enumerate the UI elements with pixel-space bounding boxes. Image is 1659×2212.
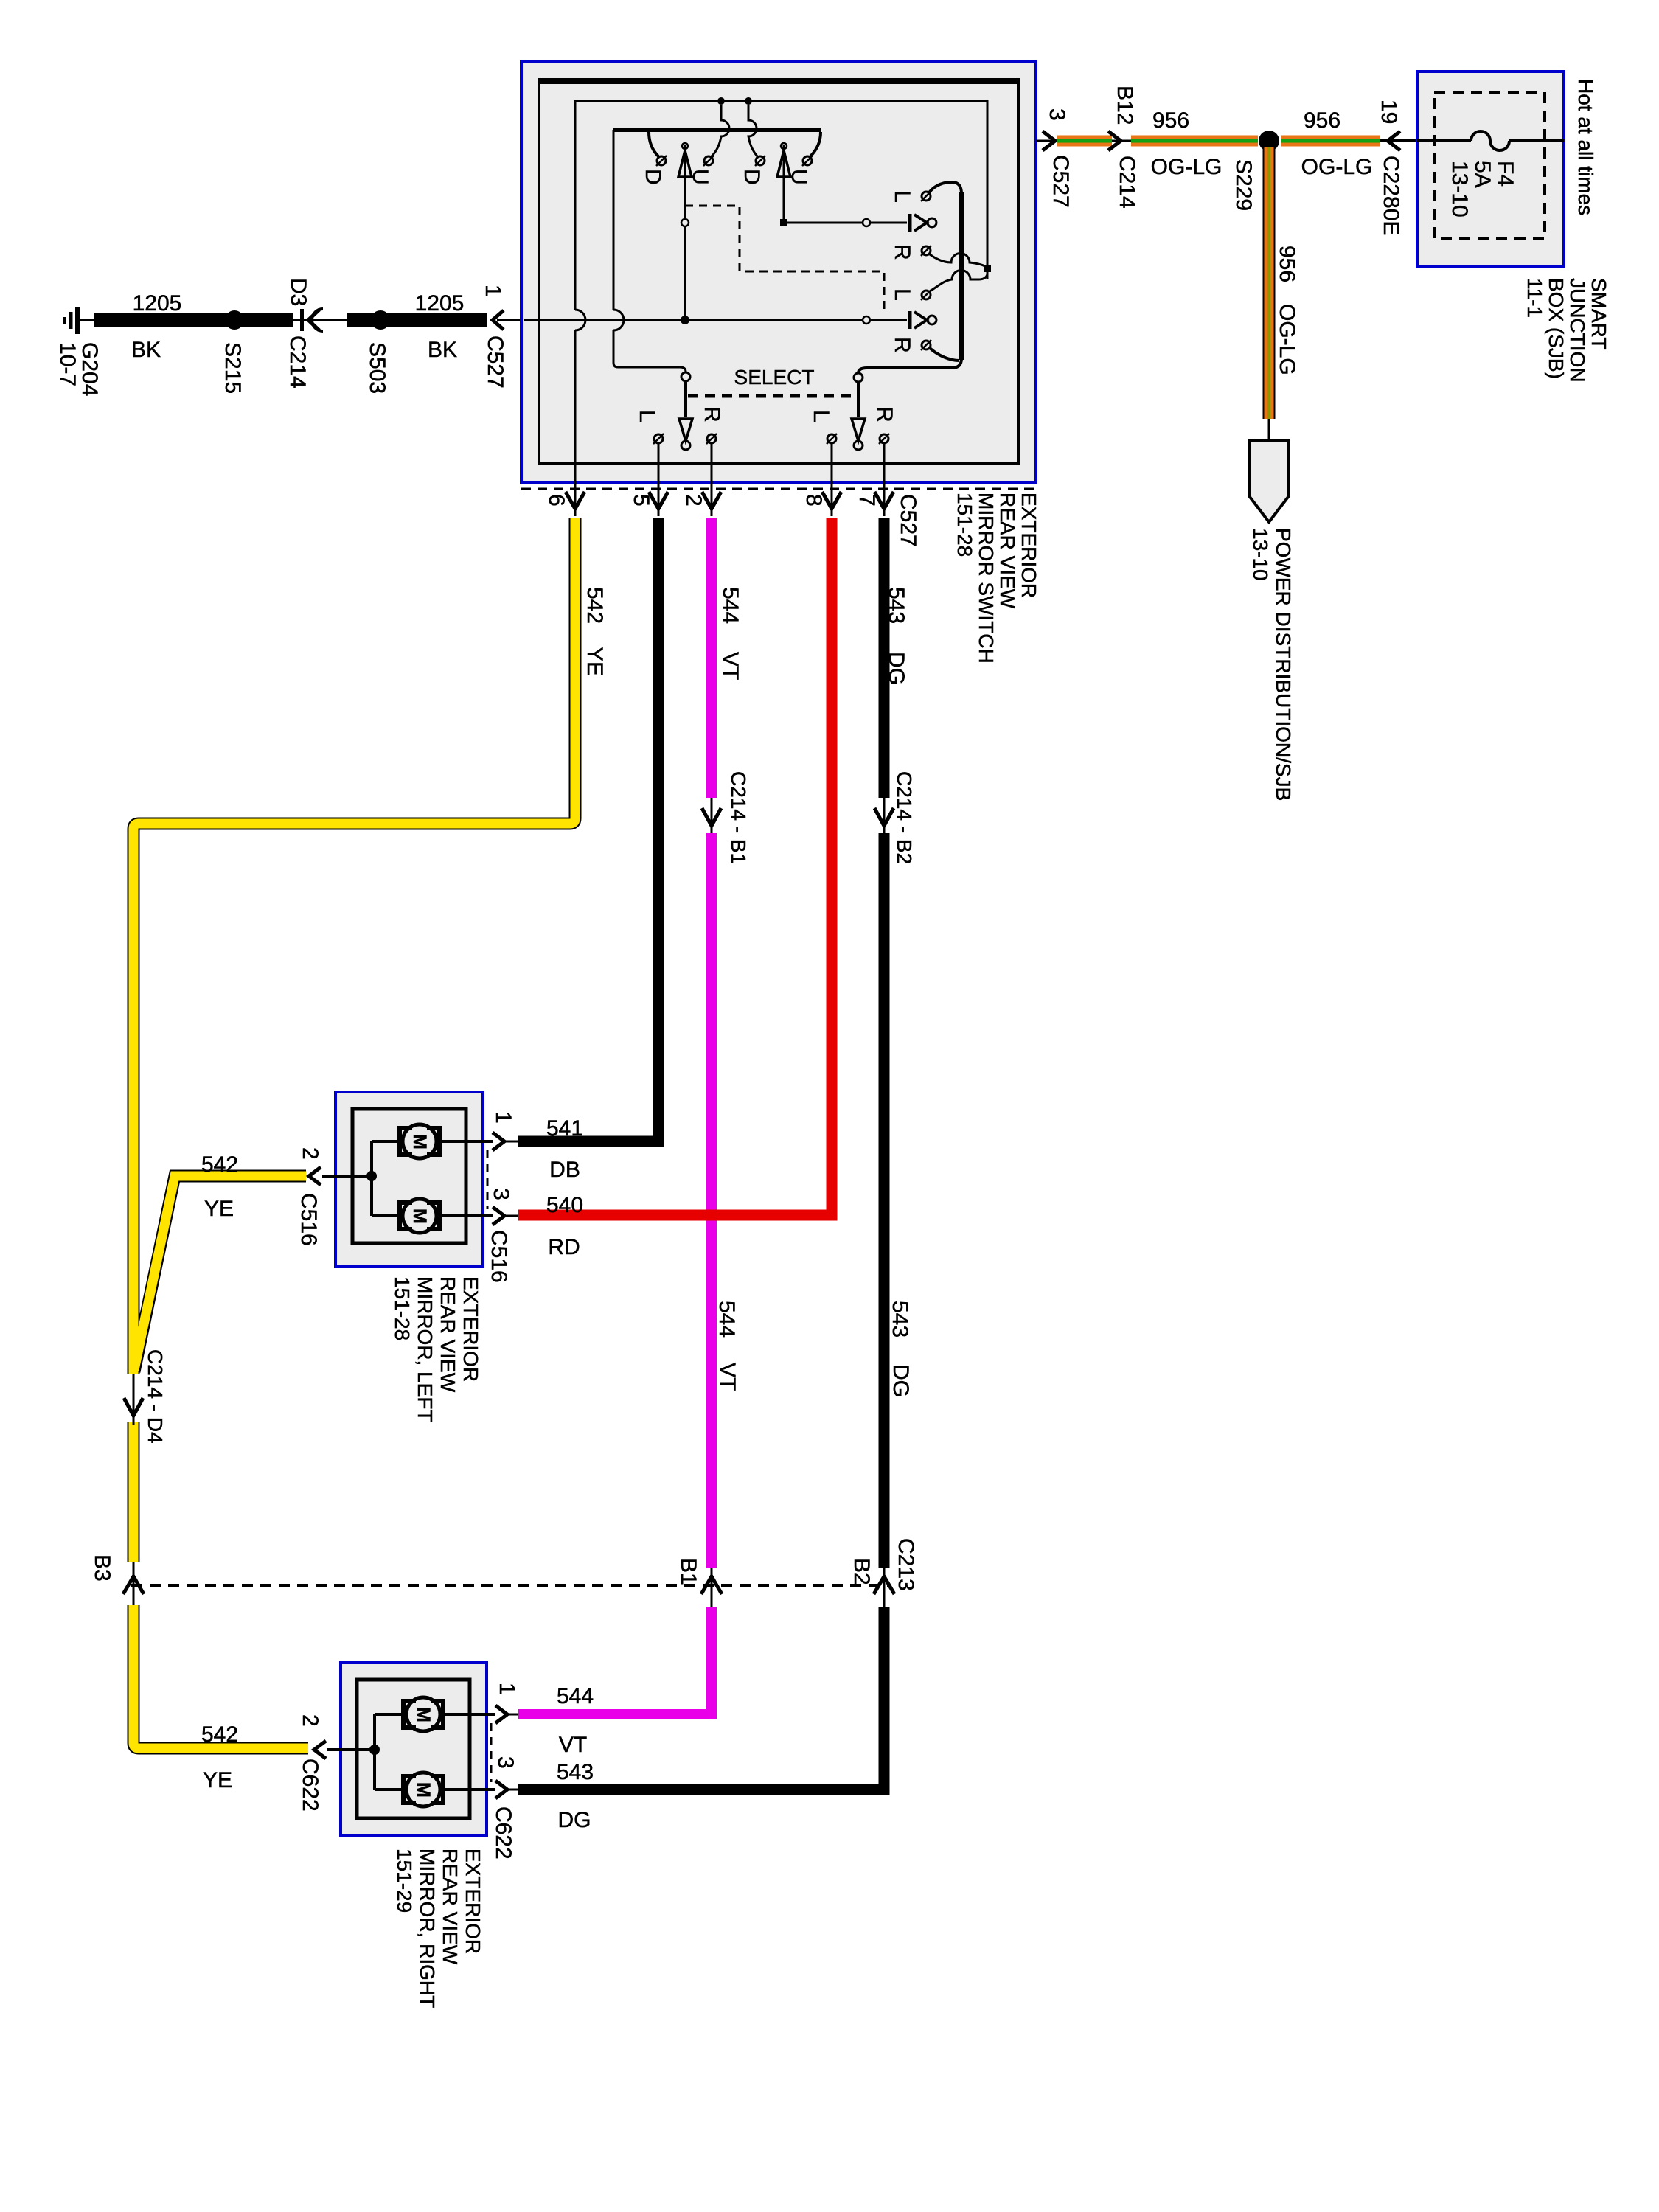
- wire up-down wiper bus B: [613, 130, 821, 156]
- dashed select link: [688, 394, 856, 398]
- svg-text:543: 543: [884, 587, 908, 624]
- svg-text:7: 7: [855, 494, 879, 507]
- select switch right pole: [852, 373, 865, 450]
- svg-text:151-29: 151-29: [393, 1848, 416, 1913]
- svg-text:544: 544: [718, 587, 742, 624]
- motor M1 left mirror: [400, 1124, 439, 1158]
- svg-text:M: M: [413, 1707, 434, 1722]
- svg-text:EXTERIOR: EXTERIOR: [462, 1848, 484, 1954]
- svg-text:YE: YE: [203, 1768, 232, 1792]
- svg-text:REAR VIEW: REAR VIEW: [996, 493, 1019, 609]
- wire 956 OG-LG segment A: [1057, 136, 1112, 147]
- right mirror box EXTERIOR REAR VIEW MIRROR RIGHT: [341, 1663, 487, 1835]
- contact R1: [890, 244, 931, 260]
- svg-text:S503: S503: [365, 342, 389, 394]
- svg-text:MIRROR, LEFT: MIRROR, LEFT: [414, 1276, 437, 1422]
- wiper arrow 1 (up-down): [678, 143, 692, 324]
- svg-text:C214: C214: [1115, 156, 1139, 209]
- svg-text:OG-LG: OG-LG: [1301, 155, 1373, 179]
- svg-text:VT: VT: [718, 652, 742, 680]
- svg-text:D: D: [641, 169, 665, 185]
- svg-text:SMART: SMART: [1587, 278, 1610, 350]
- contact R2: [890, 337, 931, 353]
- splice S215: [220, 310, 245, 394]
- wire 541 DB: [518, 518, 742, 1141]
- svg-text:2: 2: [298, 1714, 322, 1727]
- svg-text:10-7: 10-7: [55, 342, 80, 386]
- svg-text:956: 956: [1275, 246, 1299, 282]
- svg-text:MIRROR SWITCH: MIRROR SWITCH: [975, 493, 998, 664]
- wire 540 RD: [518, 518, 832, 1215]
- wire common line A (pin 6 feed): [575, 97, 991, 487]
- fuse F4 5A: [1417, 131, 1564, 218]
- svg-text:544: 544: [557, 1684, 594, 1708]
- select contact L (pin8): [809, 410, 837, 444]
- contact U2: [787, 156, 813, 185]
- contact L2: [890, 288, 931, 301]
- svg-text:2: 2: [298, 1147, 322, 1160]
- wire 542 YE: [133, 518, 607, 1748]
- svg-text:C516: C516: [487, 1230, 511, 1283]
- left mirror internal wiring: [322, 1141, 493, 1216]
- svg-text:C213: C213: [894, 1538, 918, 1591]
- svg-text:1: 1: [481, 285, 505, 297]
- pin 3 arrow wire 540: [487, 1188, 583, 1283]
- svg-text:R: R: [700, 406, 724, 422]
- svg-text:6: 6: [544, 494, 568, 507]
- wire L2 arm to common: [930, 271, 987, 292]
- power distribution arrow: [1249, 419, 1295, 801]
- svg-text:C214 - B2: C214 - B2: [893, 771, 916, 864]
- svg-text:C527: C527: [483, 335, 507, 389]
- wire select pole L feed: [613, 130, 686, 372]
- svg-text:R: R: [890, 244, 914, 260]
- svg-text:S215: S215: [220, 342, 245, 394]
- svg-text:956: 956: [1304, 108, 1340, 133]
- wire 956 OG-LG segment C: [1281, 108, 1380, 179]
- splice S503: [365, 310, 390, 394]
- wiper arrow 2 (up-down): [777, 143, 790, 226]
- svg-text:151-28: 151-28: [391, 1276, 414, 1340]
- wire 1205 BK segment 1: [94, 291, 293, 362]
- svg-text:REAR VIEW: REAR VIEW: [439, 1848, 462, 1965]
- pin 1 arrow wire 541: [491, 1111, 583, 1182]
- svg-text:C516: C516: [296, 1193, 321, 1246]
- connector C2280E pin 19: [1377, 100, 1417, 235]
- svg-text:RD: RD: [548, 1235, 580, 1259]
- svg-text:C214 - D4: C214 - D4: [144, 1349, 167, 1444]
- svg-text:C214: C214: [285, 335, 310, 389]
- svg-text:541: 541: [546, 1116, 583, 1141]
- left mirror box EXTERIOR REAR VIEW MIRROR LEFT: [335, 1092, 483, 1267]
- svg-text:C2280E: C2280E: [1379, 156, 1403, 235]
- contact U1: [688, 156, 714, 185]
- wire 543 DG: [518, 518, 913, 1790]
- pin 1 arrow wire 544: [495, 1683, 594, 1757]
- svg-text:L: L: [890, 190, 914, 203]
- motor M2 left mirror: [400, 1199, 439, 1233]
- svg-text:C527: C527: [896, 494, 920, 547]
- select switch left pole: [679, 372, 692, 450]
- pin 2 arrow C622: [201, 1714, 326, 1812]
- pin 8 arrow: [801, 465, 841, 516]
- svg-text:REAR VIEW: REAR VIEW: [437, 1276, 459, 1393]
- connector C213 dashed: [131, 1538, 918, 1591]
- svg-text:2: 2: [681, 494, 706, 507]
- connector C214 B1 arrow: [702, 771, 750, 864]
- pin 2 arrow: [681, 465, 721, 516]
- svg-text:R: R: [890, 337, 914, 353]
- svg-text:544: 544: [714, 1301, 739, 1338]
- svg-text:L: L: [890, 288, 914, 301]
- svg-text:D: D: [740, 169, 764, 185]
- svg-text:1: 1: [495, 1683, 519, 1695]
- connector C214 D3: [285, 278, 347, 389]
- svg-text:BK: BK: [428, 338, 457, 362]
- svg-text:YE: YE: [582, 647, 607, 676]
- svg-text:L: L: [809, 410, 833, 422]
- connector C527 pin 3: [1036, 108, 1073, 208]
- svg-text:542: 542: [582, 587, 607, 624]
- smart junction box SJB: [1417, 72, 1564, 267]
- wire contact U1 drop: [712, 105, 729, 156]
- svg-text:POWER DISTRIBUTION/SJB: POWER DISTRIBUTION/SJB: [1272, 528, 1295, 801]
- svg-text:B2: B2: [849, 1558, 874, 1585]
- svg-text:C622: C622: [298, 1759, 322, 1812]
- svg-text:543: 543: [557, 1760, 594, 1784]
- svg-text:C622: C622: [491, 1806, 515, 1860]
- svg-text:1205: 1205: [133, 291, 182, 316]
- svg-text:MIRROR, RIGHT: MIRROR, RIGHT: [416, 1848, 439, 2008]
- svg-text:C214 - B1: C214 - B1: [727, 771, 750, 864]
- svg-text:5: 5: [629, 494, 653, 507]
- svg-text:13-10: 13-10: [1249, 528, 1272, 581]
- ground G204: [55, 307, 102, 396]
- svg-text:BOX (SJB): BOX (SJB): [1545, 278, 1568, 379]
- select contact R (pin7): [872, 406, 897, 444]
- pin contact stubs: [658, 443, 884, 467]
- connector C213 B2 arrow: [849, 1558, 894, 1594]
- right mirror label: [393, 1848, 484, 2008]
- svg-text:M: M: [413, 1782, 434, 1798]
- connector C527 dashed under switch box: [521, 488, 1037, 490]
- svg-text:542: 542: [201, 1152, 238, 1177]
- connector C214 B2 arrow: [874, 771, 916, 864]
- wire 542 YE outline: [133, 518, 575, 1748]
- contact L1: [890, 190, 931, 203]
- svg-text:D3: D3: [286, 278, 310, 306]
- svg-text:DG: DG: [884, 652, 908, 685]
- svg-text:19: 19: [1377, 100, 1401, 124]
- svg-text:S229: S229: [1231, 159, 1256, 211]
- connector C214 D4 on 542: [124, 1349, 167, 1444]
- svg-text:EXTERIOR: EXTERIOR: [459, 1276, 482, 1382]
- svg-text:M: M: [409, 1134, 430, 1150]
- svg-text:C527: C527: [1048, 155, 1073, 208]
- pin 2 arrow C516: [201, 1147, 322, 1246]
- connector C213 B3 arrow: [90, 1554, 144, 1605]
- label smart junction box: [1523, 278, 1610, 383]
- svg-text:OG-LG: OG-LG: [1151, 155, 1222, 179]
- connector C527 pin 1: [481, 285, 524, 389]
- svg-text:1205: 1205: [415, 291, 465, 316]
- svg-text:3: 3: [1045, 108, 1069, 121]
- wire 956 OG-LG vertical: [1269, 147, 1299, 419]
- svg-text:L: L: [635, 410, 659, 422]
- svg-text:SELECT: SELECT: [734, 366, 815, 389]
- svg-text:DG: DG: [888, 1364, 913, 1397]
- svg-text:1: 1: [491, 1111, 515, 1124]
- svg-text:151-28: 151-28: [953, 493, 976, 557]
- svg-text:BK: BK: [131, 338, 161, 362]
- svg-text:3: 3: [489, 1188, 513, 1200]
- svg-text:VT: VT: [559, 1733, 587, 1757]
- svg-text:G204: G204: [77, 342, 102, 396]
- svg-text:F4: F4: [1493, 161, 1517, 187]
- wire left-right bus R: [858, 182, 961, 373]
- contact D1: [641, 156, 667, 185]
- svg-text:VT: VT: [715, 1363, 740, 1391]
- motor M1 right mirror: [403, 1697, 443, 1731]
- svg-text:EXTERIOR: EXTERIOR: [1018, 493, 1040, 598]
- pin 5 arrow: [629, 465, 668, 516]
- svg-text:DG: DG: [558, 1808, 591, 1832]
- connector C214 B12: [1108, 86, 1139, 209]
- connector C622 dashed: [490, 1723, 493, 1782]
- dashed mechanical link up-down: [685, 206, 884, 313]
- svg-text:M: M: [409, 1208, 430, 1224]
- wire 544 VT: [518, 518, 742, 1714]
- pin 3 arrow wire 543: [491, 1756, 594, 1860]
- wire pin1 common feed line: [524, 311, 936, 329]
- svg-text:540: 540: [546, 1193, 583, 1217]
- connector C516 dashed: [487, 1150, 489, 1209]
- wire 1205 BK segment 2: [347, 291, 487, 362]
- svg-text:956: 956: [1152, 108, 1189, 133]
- svg-text:JUNCTION: JUNCTION: [1566, 278, 1589, 383]
- right mirror internal wiring: [327, 1714, 495, 1790]
- motor M2 right mirror: [403, 1773, 443, 1806]
- svg-text:YE: YE: [204, 1197, 234, 1221]
- select contact R (pin2): [700, 406, 724, 444]
- switch box EXTERIOR REAR VIEW MIRROR SWITCH: [521, 61, 1036, 483]
- svg-text:11-1: 11-1: [1523, 278, 1546, 318]
- svg-text:543: 543: [888, 1301, 912, 1338]
- connector C213 B1 arrow: [676, 1558, 722, 1594]
- select contact L (pin5): [635, 410, 664, 444]
- svg-text:5A: 5A: [1470, 161, 1495, 188]
- svg-text:B12: B12: [1113, 86, 1137, 125]
- contact D2: [740, 156, 765, 185]
- svg-text:OG-LG: OG-LG: [1275, 304, 1299, 375]
- svg-text:B3: B3: [90, 1554, 114, 1582]
- svg-text:8: 8: [801, 494, 826, 507]
- svg-text:R: R: [872, 406, 897, 422]
- wire R1 arm to common: [930, 254, 987, 268]
- svg-text:Hot at all times: Hot at all times: [1574, 79, 1597, 215]
- pin 6 arrow: [544, 465, 585, 516]
- svg-text:DB: DB: [549, 1158, 580, 1182]
- wire contact D2 drop: [748, 105, 757, 156]
- svg-text:13-10: 13-10: [1447, 161, 1472, 218]
- wire 956 OG-LG segment B: [1131, 108, 1258, 179]
- svg-text:B1: B1: [676, 1558, 700, 1585]
- left mirror label: [391, 1276, 482, 1422]
- wire left-right wiper 1 row: [784, 214, 936, 232]
- splice S229: [1231, 131, 1279, 211]
- pin 7 arrow: [855, 465, 920, 547]
- svg-text:542: 542: [201, 1722, 238, 1747]
- svg-text:3: 3: [493, 1756, 518, 1769]
